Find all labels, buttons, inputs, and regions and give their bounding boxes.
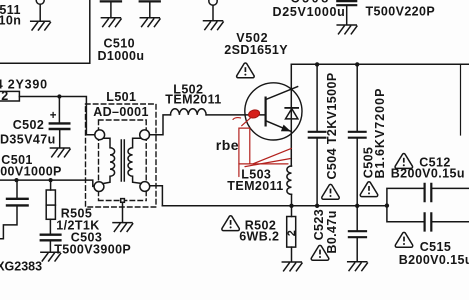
inductor L502 TEM2011: [171, 109, 207, 115]
svg-text:B1.6KV7200P: B1.6KV7200P: [373, 88, 387, 179]
junction: bottom net / C512,C515 branch: [385, 203, 389, 207]
ground of C523: [348, 262, 368, 271]
capacitor C501 T400V1000P: [16, 180, 18, 198]
ground of C510b: [140, 18, 160, 27]
transistor V502 2SD1651Y body: [245, 83, 302, 140]
ground with terminal circle (right of C510): [209, 0, 217, 5]
svg-text:D35V47u: D35V47u: [0, 133, 56, 147]
svg-text:2SD1651Y: 2SD1651Y: [224, 43, 288, 57]
svg-text:T500V220P: T500V220P: [366, 5, 436, 19]
transistor V502 emitter stroke: [266, 121, 291, 132]
wire: top net (collector to right edge): [291, 63, 469, 65]
capacitor C508 D25V1000u top-right: [337, 0, 356, 2]
svg-text:+: +: [50, 110, 57, 122]
warning triangle near C523: [311, 245, 329, 260]
wire: input net from R50x to transformer L501: [19, 97, 94, 135]
capacitor C503 T500V3900P: [41, 233, 61, 235]
junction: bottom net / R502 / L503: [289, 204, 293, 208]
svg-text:2: 2: [1, 89, 8, 103]
transistor V502 collector stroke: [266, 87, 298, 100]
junction: bottom net / C505,C523: [355, 204, 359, 208]
capacitor C510 unit a (top plate off-frame): [101, 0, 121, 2]
svg-text:T500V3900P: T500V3900P: [54, 242, 131, 256]
warning triangle near C512: [395, 154, 413, 169]
warning triangle near V502: [237, 63, 255, 78]
transformer L501 shield dashed box: [99, 120, 147, 201]
svg-text:C523: C523: [312, 209, 326, 240]
ground of transformer shield: [113, 223, 133, 232]
transformer L501 pin 1 (top-left): [95, 130, 105, 140]
transformer L501 pin 4 (bottom-right): [140, 182, 150, 192]
ground of C502: [50, 148, 70, 157]
transformer L501 pin 2 (top-right): [140, 130, 150, 140]
warning triangle near C504: [322, 184, 340, 199]
red annotation: pointer line to blob: [242, 117, 251, 125]
ground with terminal circle (inside box, net of C511): [36, 0, 44, 4]
svg-text:TEM2011: TEM2011: [227, 179, 283, 193]
damper diode inside V502: [285, 107, 298, 109]
junction: top net / C504: [315, 62, 319, 66]
red annotation: lead line upper: [254, 148, 292, 163]
red annotation: lead line lower: [245, 159, 290, 167]
sub-circuit boundary box top-left: [0, 0, 90, 63]
capacitor C515 B200V0.15u: [425, 213, 432, 230]
capacitor C502 D35V47u: [58, 97, 60, 123]
svg-text:10n: 10n: [0, 14, 21, 28]
svg-text:D25V1000u: D25V1000u: [273, 5, 346, 19]
transistor V502 base bar: [265, 98, 267, 126]
svg-text:C502: C502: [13, 118, 44, 132]
junction: input net / C502: [57, 94, 61, 98]
wire: transformer pin 2 to inductor L502: [150, 115, 171, 135]
capacitor C505 B1.6KV7200P: [356, 64, 358, 131]
transformer L501 pin 3 (bottom-left): [94, 182, 104, 192]
ground of C503: [41, 252, 61, 261]
junction: net B / C501: [14, 178, 18, 182]
svg-text:B200V0.15u: B200V0.15u: [399, 253, 469, 267]
svg-text:AD–0001: AD–0001: [93, 105, 149, 119]
junction: top net / C505: [355, 62, 359, 66]
wire: collector net vertical: [290, 64, 292, 166]
transformer L501 core: [121, 140, 124, 181]
wire: bottom net (emitter return): [162, 205, 387, 207]
svg-text:B0.47u: B0.47u: [325, 210, 339, 253]
svg-text:TEM2011: TEM2011: [165, 92, 221, 106]
wire: net C501/R505 to transformer pin 3: [0, 180, 94, 186]
wire: transformer pin 4 to bottom net: [150, 186, 163, 206]
resistor R505 1/2T1K: [50, 180, 52, 190]
warning triangle near C505: [360, 182, 378, 197]
svg-text:D1000u: D1000u: [98, 49, 145, 63]
transformer L501 outer dashed boundary: [86, 104, 157, 207]
ground of C510a: [101, 18, 121, 27]
ground of R502: [282, 262, 302, 271]
svg-text:T400V1000P: T400V1000P: [0, 164, 62, 178]
red annotation: long underline: [239, 163, 288, 165]
transformer L501 shield tap: [121, 199, 125, 203]
transistor V502 emitter arrow: [281, 125, 291, 132]
capacitor C512 B200V0.15u: [425, 184, 432, 201]
svg-text:C515: C515: [420, 240, 451, 254]
red annotation: bracket around L503: [239, 128, 250, 176]
resistor R50x (left edge, value 2Y390): [0, 91, 19, 101]
capacitor C523 B0.47u: [356, 206, 358, 231]
capacitor C510 unit b (top plate off-frame): [140, 0, 160, 2]
svg-text:2: 2: [286, 230, 298, 237]
resistor R502 6WB.2: [291, 206, 293, 217]
svg-text:L501: L501: [106, 90, 136, 104]
transformer L501 primary winding: [103, 138, 115, 183]
svg-text:rbe: rbe: [216, 137, 239, 153]
svg-text:C504 T2KV1500P: C504 T2KV1500P: [325, 72, 339, 179]
ground of C508: [337, 25, 357, 34]
inductor L503 TEM2011: [287, 166, 292, 194]
transformer L501 secondary winding: [128, 138, 141, 183]
svg-text:B200V0.15u: B200V0.15u: [391, 167, 465, 181]
svg-text:6WB.2: 6WB.2: [239, 230, 279, 244]
capacitor C504 T2KV1500P: [316, 64, 318, 131]
warning triangle near C515: [395, 232, 413, 247]
red annotation: small tick arrow: [233, 118, 241, 120]
warning triangle near R502: [222, 216, 240, 231]
red annotation: blob on base node: [248, 109, 261, 119]
junction: net B / R505: [49, 178, 53, 182]
wire: stub from top net down at right: [460, 64, 462, 135]
svg-text:XG2383: XG2383: [0, 259, 42, 273]
wire: L502 to base of V502: [206, 114, 265, 116]
wire: branch to C512/C515: [387, 188, 424, 221]
junction: bottom net / C504: [315, 204, 319, 208]
